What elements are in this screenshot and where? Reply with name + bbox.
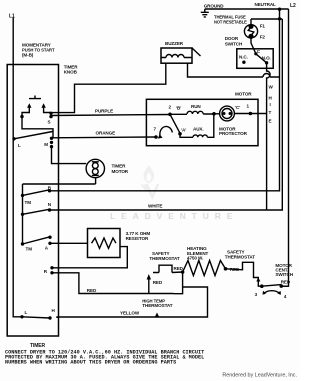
svg-text:LEADVENTURE: LEADVENTURE: [110, 211, 237, 221]
svg-text:M: M: [44, 142, 48, 147]
svg-text:N.C.: N.C.: [239, 55, 248, 60]
svg-text:AUX.: AUX.: [193, 126, 204, 131]
svg-text:NOT RESETABLE: NOT RESETABLE: [214, 20, 247, 25]
svg-text:BUZZER: BUZZER: [165, 41, 184, 46]
svg-text:MOTOR: MOTOR: [112, 169, 129, 174]
svg-text:'B': 'B': [176, 106, 181, 111]
svg-text:MOTOR: MOTOR: [235, 91, 252, 96]
svg-text:RED: RED: [174, 266, 184, 271]
svg-text:RED: RED: [87, 288, 97, 293]
svg-text:THERMOSTAT: THERMOSTAT: [142, 303, 173, 308]
svg-text:N.O.: N.O.: [262, 55, 271, 60]
svg-text:L: L: [25, 310, 28, 315]
svg-text:THERMOSTAT: THERMOSTAT: [149, 256, 180, 261]
svg-text:3.77 K OHM: 3.77 K OHM: [126, 231, 151, 236]
svg-text:RED: RED: [281, 279, 291, 284]
svg-text:GROUND: GROUND: [204, 4, 225, 9]
svg-text:S: S: [48, 119, 51, 124]
svg-text:TIMER: TIMER: [112, 163, 127, 168]
svg-text:L2: L2: [290, 3, 296, 9]
svg-text:L: L: [18, 143, 21, 148]
svg-text:WHITE: WHITE: [148, 204, 162, 209]
svg-text:TM: TM: [25, 200, 32, 205]
svg-text:(M-B): (M-B): [22, 52, 34, 57]
svg-text:KNOB: KNOB: [64, 70, 78, 75]
svg-text:T: T: [269, 110, 272, 115]
svg-text:THERMOSTAT: THERMOSTAT: [225, 254, 256, 259]
svg-text:ORANGE: ORANGE: [96, 130, 116, 135]
svg-text:PROTECTOR: PROTECTOR: [219, 131, 248, 136]
svg-text:RED: RED: [230, 267, 240, 272]
svg-text:'A': 'A': [181, 127, 186, 132]
svg-text:NUMBERS WHEN WRITING ABOUT THI: NUMBERS WHEN WRITING ABOUT THIS DRYER OR…: [5, 360, 176, 366]
svg-text:SWITCH: SWITCH: [225, 41, 243, 46]
svg-text:RESISTOR: RESISTOR: [126, 236, 149, 241]
svg-text:L1: L1: [9, 14, 15, 20]
svg-text:NEUTRAL: NEUTRAL: [255, 2, 277, 7]
svg-text:TM: TM: [26, 246, 33, 251]
svg-text:I: I: [270, 102, 271, 107]
svg-text:SWITCH: SWITCH: [275, 272, 293, 277]
svg-text:Rendered by LeadVenture, Inc.: Rendered by LeadVenture, Inc.: [222, 373, 297, 379]
svg-text:F2: F2: [260, 35, 266, 40]
svg-text:F1: F1: [260, 23, 266, 28]
svg-text:RED: RED: [153, 280, 163, 285]
svg-text:E: E: [269, 118, 272, 123]
svg-text:PURPLE: PURPLE: [95, 108, 113, 113]
svg-text:RUN: RUN: [191, 104, 201, 109]
svg-text:4750 W.: 4750 W.: [187, 256, 203, 261]
svg-text:'C': 'C': [235, 105, 240, 110]
svg-text:YELLOW: YELLOW: [120, 310, 140, 315]
svg-text:TIMER: TIMER: [30, 343, 46, 349]
svg-text:DOOR: DOOR: [225, 36, 239, 41]
